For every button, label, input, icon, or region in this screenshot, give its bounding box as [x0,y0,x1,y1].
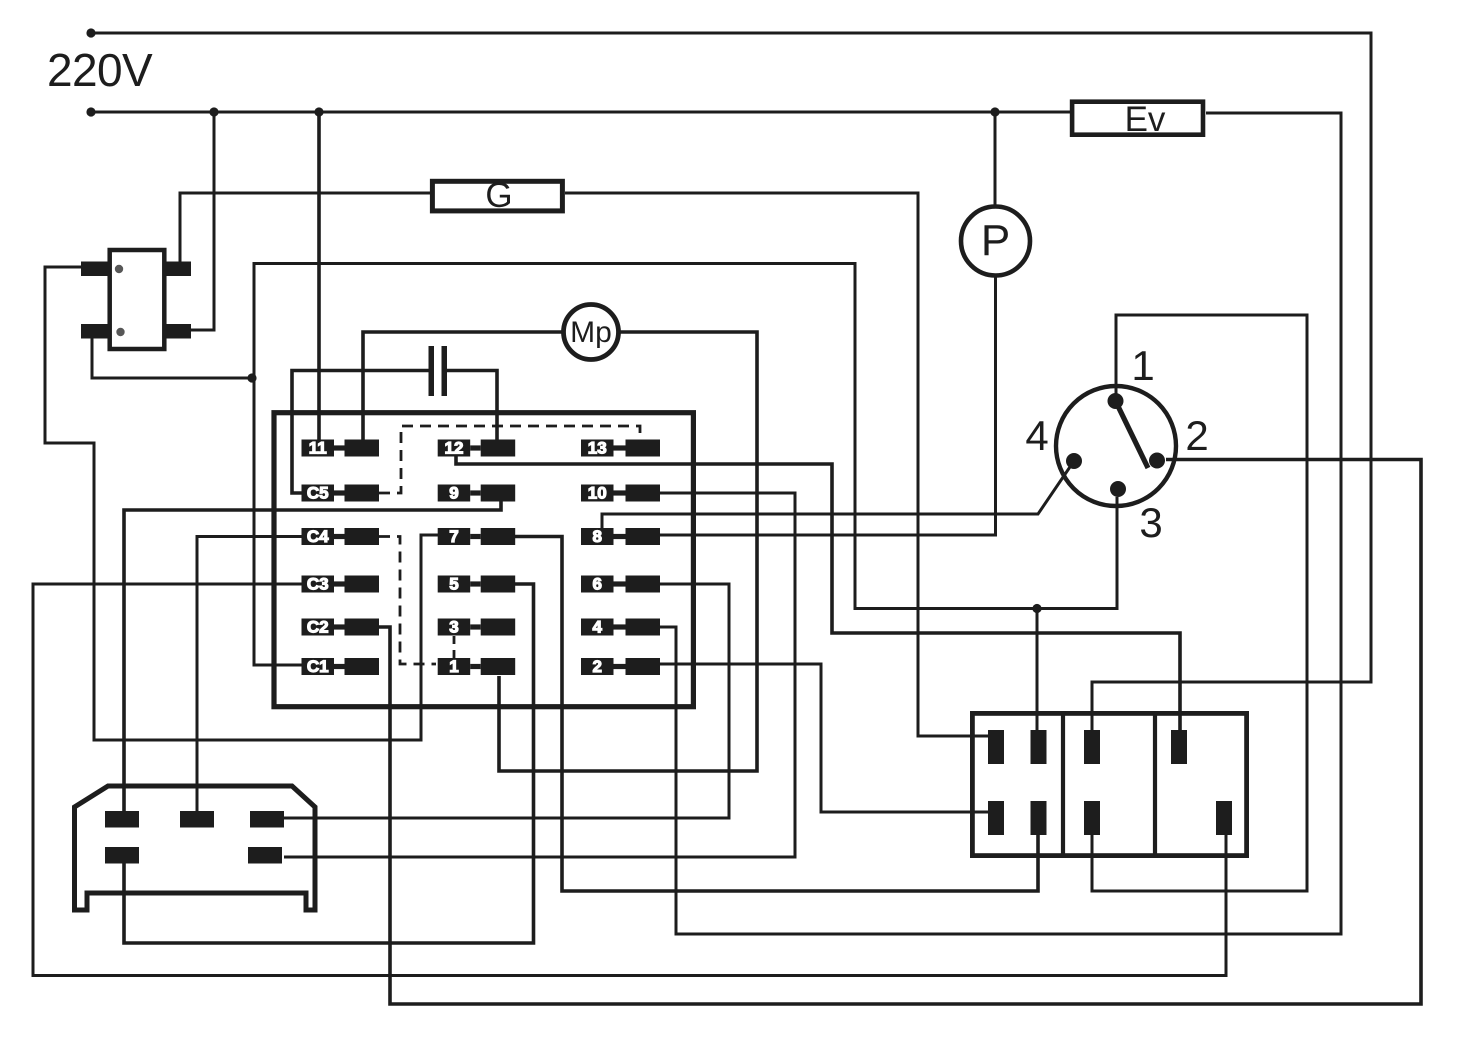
svg-text:13: 13 [588,439,607,458]
svg-text:1: 1 [449,657,458,676]
wire terminal C3 to switch bank S2 comp3 lower pad [33,584,1226,976]
svg-text:3: 3 [449,618,458,637]
terminal 3 of timer [438,618,516,637]
wire terminal 2 to switch bank S2 comp1 lower-left pad [660,664,989,812]
junction dot L2/X1 [209,107,218,116]
selector lever [1116,401,1149,468]
terminal 11 of timer [302,439,380,458]
terminal C5 of timer [302,484,380,503]
svg-text:5: 5 [449,575,458,594]
heater connector E outline [75,786,316,910]
svg-text:C4: C4 [307,527,329,546]
wire terminal C2 to selector pin 2 [379,460,1421,1005]
wire terminal 5 to heater connector pad 4 [124,584,534,943]
terminal C3 of timer [302,575,380,594]
S2 comp1 lower-right pad [1031,801,1047,835]
svg-text:220V: 220V [47,44,153,96]
wire C1-net to switch bank S2 comp1 upper-right pad [1036,609,1039,736]
wire terminal C4 to heater connector pad 2 [197,537,303,813]
svg-text:10: 10 [588,484,607,503]
svg-text:12: 12 [444,439,463,458]
wire terminal 9 to heater connector pad 1 [124,502,501,813]
wire X1 upper-left tab to timer terminal 7 label [45,267,438,740]
terminal C4 of timer [302,527,380,546]
svg-text:Ev: Ev [1125,100,1166,139]
generator G [432,176,562,215]
svg-text:8: 8 [593,527,602,546]
heater pad 5 [248,847,282,864]
heater pad 3 [250,811,284,828]
switch bank S2 body [972,711,1246,858]
svg-text:7: 7 [449,527,458,546]
wire capacitor right plate to timer terminal 12 contact [447,371,497,442]
terminal 1 of timer [438,657,516,676]
wire 220V line L1 to switch bank S2 pad (node L1) [91,33,1371,735]
S2 comp2 upper pad [1084,730,1100,764]
wire terminal 10 to heater connector pad 5 [284,493,795,857]
terminal 4 of timer [581,618,660,637]
heater pad 2 [180,811,214,828]
wire terminal 12 to switch bank S2 comp3 upper pad [456,457,1180,736]
junction dot C1-net/S2 [1032,604,1041,613]
S2 comp3 lower pad [1216,801,1232,835]
svg-text:Mp: Mp [570,316,612,349]
svg-text:9: 9 [449,484,458,503]
wire X1 lower-left tab to node C1-net [92,338,251,378]
S2 comp1 lower-left pad [988,801,1004,835]
wire 220V line L2 to lamp Ev (node L2) [91,111,1070,114]
terminal 2 of timer [581,657,660,676]
wire terminal 6 to heater connector pad 3 [284,584,729,818]
pressure switch P [961,207,1030,276]
dashed link C5 to 13 [379,426,640,493]
wire Ev to timer terminal 4 [659,113,1341,934]
heater pad 1 [105,811,139,828]
wire Mp left to timer terminal 11 contact [363,332,564,441]
selector pin 3 [1110,481,1126,497]
svg-text:3: 3 [1139,499,1162,546]
junction dot L2/11 [314,107,323,116]
S2 comp1 upper-left pad [988,730,1004,764]
terminal 5 of timer [438,575,516,594]
wire L2 to X1 lower-right tab [191,112,214,330]
node L2 endpoint dot [86,107,95,116]
wire terminal 8 label to selector pin 4 [602,461,1074,528]
terminal 13 of timer [581,439,660,458]
svg-text:C1: C1 [307,657,329,676]
junction dot X1/C1-net [247,373,256,382]
selector pin 1 [1108,393,1124,409]
terminal 8 of timer [581,527,660,546]
wire Mp right to timer terminal 1 contact [499,332,757,771]
selector switch SW circle [1056,386,1176,506]
svg-text:4: 4 [593,618,603,637]
svg-text:4: 4 [1025,412,1048,459]
timer programmer box outline [274,413,693,707]
svg-text:1: 1 [1131,342,1154,389]
svg-text:P: P [981,216,1010,265]
junction dot L2/P [990,107,999,116]
heater pad 4 [105,847,139,864]
terminal 7 of timer [438,527,516,546]
wire X1 upper-right tab to generator G [180,193,431,262]
wire capacitor left plate to timer terminal C5 [292,371,429,494]
wire P bottom to timer terminal 8 [660,276,996,536]
node L1 endpoint dot [86,28,95,37]
wire terminal C1 to selector pin 3 [254,264,1117,666]
selector pin 2 [1149,453,1165,469]
S2 comp3 upper pad [1171,730,1187,764]
motor Mp [564,305,619,360]
svg-text:2: 2 [1185,412,1208,459]
S2 comp2 lower pad [1084,801,1100,835]
suppressor X1 body [81,250,191,349]
svg-text:11: 11 [309,439,327,458]
wire terminal 7 contact to switch bank S2 comp1 lower-right pad [515,537,1038,892]
svg-text:6: 6 [593,575,602,594]
svg-text:C3: C3 [307,575,329,594]
svg-text:2: 2 [593,657,602,676]
terminal 6 of timer [581,575,660,594]
wire selector pin 1 to switch bank S2 comp2 lower pad [1092,315,1307,891]
terminal C1 of timer [302,657,380,676]
dashed link C4 to 1 [379,537,436,665]
wire L2 to timer terminal 11 label [317,112,321,440]
terminal 10 of timer [581,484,660,503]
dashed link 3 to 1 [453,636,456,658]
svg-text:G: G [485,176,512,215]
wire L2 to P top [994,112,997,207]
capacitor C plates [429,346,448,396]
svg-text:C2: C2 [307,618,329,637]
terminal 12 of timer [438,439,516,458]
wire G to switch bank S2 comp1 upper-left pad [565,193,989,736]
S2 comp1 upper-right pad [1031,730,1047,764]
selector pin 4 [1066,453,1082,469]
svg-text:C5: C5 [307,484,329,503]
terminal 9 of timer [438,484,516,503]
terminal C2 of timer [302,618,380,637]
lamp Ev [1072,100,1203,139]
